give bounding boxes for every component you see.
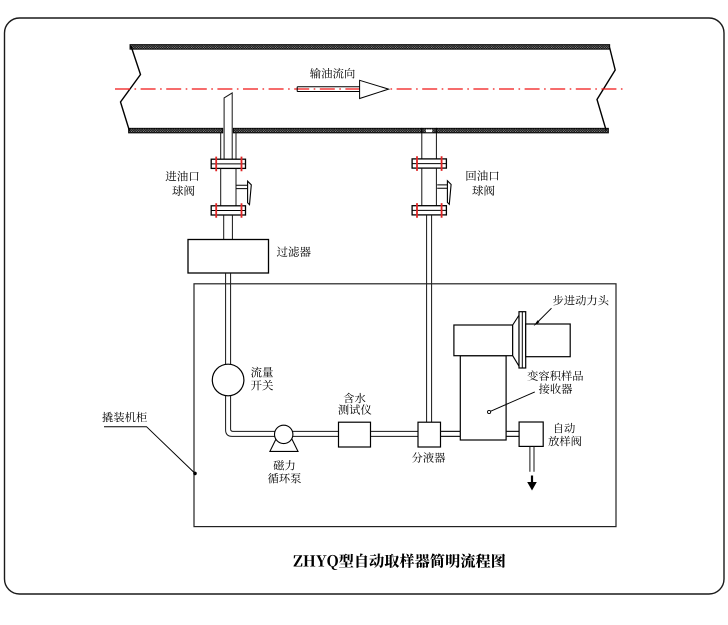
red center line: [115, 88, 623, 90]
label 步进动力头: [553, 295, 609, 305]
label 分液器: [412, 452, 445, 463]
return branch pipe walls: [422, 133, 437, 159]
stepper motor box: [526, 324, 571, 357]
label 自动 放样阀: [555, 423, 575, 433]
pipe flow switch to elbow and horizontal main: [226, 396, 519, 437]
cabinet box: [194, 284, 616, 527]
inlet valve lower flange: [211, 206, 245, 215]
label 流量 开关: [251, 367, 273, 378]
pipe return valve down to separator: [427, 215, 432, 422]
label 含水 测试仪: [344, 393, 366, 403]
label 回油口 球阀: [467, 170, 499, 181]
pipeline bottom wall left segment (hatched): [129, 128, 223, 133]
pipe filter to flow switch: [226, 273, 231, 364]
flow switch circle: [212, 364, 244, 396]
pipe inlet valve to filter: [224, 215, 233, 240]
flow arrow head: [360, 80, 389, 98]
return valve lower flange red bolts: [417, 203, 442, 218]
left branch pipe walls: [221, 133, 236, 159]
inlet valve handle blade: [248, 181, 252, 205]
inlet valve lower flange red bolts: [216, 203, 241, 218]
label 撬装机柜: [102, 412, 147, 422]
return valve upper flange: [412, 159, 446, 168]
pipeline bottom wall small gap cover right branch: [422, 128, 437, 133]
inlet valve handle stem: [237, 185, 248, 188]
label 进油口 球阀: [166, 171, 199, 182]
receiver taper to flange: [513, 315, 519, 366]
receiver flange disk: [519, 312, 526, 368]
return valve handle stem: [437, 185, 447, 188]
pipe separator to receiver: [441, 431, 461, 436]
water tester box: [339, 422, 371, 447]
pipe receiver to sampling valve: [506, 431, 519, 436]
sampling probe in pipe: [224, 93, 232, 159]
flow arrow shaft: [297, 87, 359, 92]
pump circle: [275, 425, 293, 443]
return valve body: [422, 168, 437, 206]
return valve lower flange: [412, 206, 446, 215]
pipe break line right: [597, 48, 615, 131]
pipeline bottom wall right segment (hatched): [436, 128, 608, 133]
inlet valve upper flange red bolts: [216, 157, 241, 172]
sampling valve outlet tube: [530, 446, 534, 471]
pipeline bottom wall middle segment (hatched): [233, 128, 421, 133]
return valve handle blade: [447, 181, 451, 205]
pipeline top wall (hatched): [130, 45, 610, 50]
label 输油流向: [310, 68, 355, 79]
receiver leader line: [490, 392, 535, 412]
filter box: [188, 240, 269, 274]
label 过滤器: [277, 246, 311, 257]
inlet valve body: [221, 168, 236, 205]
outlet arrow: [531, 476, 533, 484]
label 变容积样品 接收器: [527, 370, 583, 380]
inlet valve upper flange: [211, 159, 245, 168]
receiver horizontal cylinder: [454, 325, 513, 356]
cabinet leader line: [104, 427, 195, 474]
return valve upper flange red bolts: [417, 156, 442, 171]
label 磁力 循环泵: [274, 460, 295, 470]
pump mount trapezoid: [270, 438, 298, 451]
stepper leader arrow: [536, 308, 551, 323]
sampling valve box: [519, 422, 543, 446]
caption ZHYQ型自动取样器简明流程图: [294, 553, 505, 570]
pipe break line left: [121, 46, 141, 131]
receiver vertical body: [460, 356, 506, 440]
separator box: [418, 422, 441, 447]
